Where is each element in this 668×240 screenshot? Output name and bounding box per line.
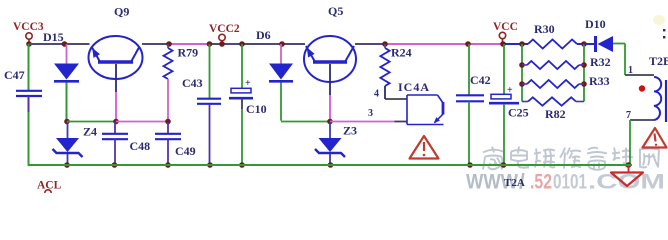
wire C42 top lead bbox=[468, 44, 470, 95]
node R79 top bbox=[166, 41, 172, 47]
wire top rail D6 to Q5 bbox=[282, 43, 305, 45]
wire C25 bottom lead bbox=[503, 104, 505, 164]
colon mark bbox=[663, 29, 665, 31]
warning symbol 2 bbox=[643, 128, 667, 148]
wire R79 stub bbox=[167, 44, 169, 48]
svg-text:R82: R82 bbox=[545, 107, 566, 121]
wire C49 bottom lead bbox=[167, 139, 169, 164]
svg-text:IC4A: IC4A bbox=[398, 80, 430, 94]
wire top rail D15 to Q9 bbox=[65, 43, 90, 45]
wire top rail VCC segment (pink) bbox=[468, 43, 503, 45]
node VCC2 bbox=[219, 41, 225, 47]
wire VCC3 down to C47 bbox=[28, 44, 30, 90]
wire D15 cathode to node (green) bbox=[66, 83, 68, 122]
wire D10 to T2B bbox=[613, 43, 625, 45]
wire Z3 top lead bbox=[329, 122, 331, 138]
wire mid to IC4A pin3 (pink) bbox=[330, 121, 395, 123]
svg-text:3: 3 bbox=[368, 108, 373, 119]
wire R24 to IC4A pin4 bbox=[385, 86, 407, 99]
yellow smudge bbox=[653, 15, 665, 25]
resistor R30 bbox=[528, 40, 577, 49]
resistor R79 bbox=[164, 48, 173, 79]
svg-text:C42: C42 bbox=[470, 73, 491, 87]
node VCC3 junction bbox=[26, 41, 32, 47]
svg-text:R24: R24 bbox=[391, 46, 412, 60]
node R block left mid1 bbox=[519, 62, 525, 68]
svg-text:C10: C10 bbox=[246, 102, 267, 116]
wire Q9 base bbox=[115, 64, 117, 122]
wire C10 bottom lead bbox=[241, 99, 243, 164]
node Z4 bottom bbox=[64, 162, 70, 168]
wire node to Z4 bbox=[67, 122, 69, 139]
svg-text:T2A: T2A bbox=[504, 177, 525, 189]
node C10 top bbox=[239, 41, 245, 47]
wire T2B pin1 lead bbox=[625, 44, 654, 76]
diode D6 bbox=[269, 64, 293, 82]
wire top rail Q5 to R24 bbox=[355, 43, 385, 45]
optocoupler IC4A bbox=[407, 95, 444, 125]
zener Z3 bbox=[315, 138, 345, 157]
wire D6 anode (pink) bbox=[280, 44, 282, 64]
svg-text:1: 1 bbox=[628, 65, 633, 76]
svg-text:C25: C25 bbox=[508, 106, 529, 120]
wire Z3 to bottom rail bbox=[329, 154, 331, 164]
wire Z4 to bottom rail bbox=[67, 154, 69, 164]
node R block right mid1 bbox=[581, 62, 587, 68]
node C49 bottom bbox=[165, 162, 171, 168]
node T2B ground junction bbox=[626, 162, 632, 168]
ground symbol bbox=[611, 166, 643, 186]
wire top rail Q9 to R79 bbox=[142, 43, 169, 45]
capacitor C42 bbox=[456, 73, 491, 101]
svg-text:D10: D10 bbox=[585, 17, 606, 31]
svg-text:.52: .52 bbox=[530, 171, 552, 194]
svg-text:R79: R79 bbox=[178, 46, 199, 60]
node C10 bottom bbox=[239, 162, 245, 168]
transformer T2B core bbox=[665, 80, 667, 122]
node C42 top bbox=[465, 41, 471, 47]
node VCC bbox=[500, 41, 506, 47]
wire C42 bottom lead bbox=[468, 102, 470, 165]
wire R block left rail bbox=[521, 44, 523, 102]
node Q5 base junction bbox=[327, 119, 333, 125]
svg-text:Q5: Q5 bbox=[328, 4, 343, 18]
node R block left mid2 bbox=[519, 81, 525, 87]
diode D15 bbox=[54, 64, 79, 82]
wire D6 cathode down and right (green) bbox=[281, 83, 330, 122]
capacitor C25 (electrolytic) bbox=[489, 85, 529, 120]
node C48 bottom bbox=[112, 162, 118, 168]
terminal VCC2 bbox=[219, 34, 225, 43]
svg-text:T2B: T2B bbox=[649, 54, 668, 68]
node Q9 base junction bbox=[113, 119, 119, 125]
terminal VCC bbox=[499, 32, 505, 43]
node C43 bottom bbox=[207, 162, 213, 168]
resistor R33 row bbox=[522, 80, 584, 88]
node R79/C49 bbox=[165, 119, 171, 125]
resistor R32 row bbox=[522, 61, 584, 69]
svg-text:VCC: VCC bbox=[493, 21, 518, 33]
node Z3 bottom bbox=[328, 162, 334, 168]
capacitor C43 bbox=[197, 99, 221, 104]
wire R24 stub bbox=[384, 44, 386, 48]
wire R79 to C49 node (pink) bbox=[167, 79, 169, 122]
svg-text:R30: R30 bbox=[534, 22, 555, 36]
node R block top-right bbox=[581, 41, 587, 47]
wire top rail C10 to D6 bbox=[242, 43, 282, 45]
svg-text:.COM: .COM bbox=[588, 171, 665, 194]
svg-text:Z3: Z3 bbox=[343, 124, 357, 138]
wire C10 top lead bbox=[241, 44, 243, 88]
transformer T2B winding bbox=[654, 77, 661, 120]
wire T2B pin7 lead bbox=[630, 120, 654, 164]
resistor R24 bbox=[380, 48, 389, 86]
wire C43 top lead bbox=[209, 44, 211, 99]
node R24 top bbox=[382, 41, 388, 47]
wire top rail R30 to D10 bbox=[577, 43, 594, 45]
wire Q5 base bbox=[329, 64, 331, 122]
node D15/Z4 bbox=[64, 119, 70, 125]
wire IC4A pin3 lead bbox=[395, 121, 408, 123]
svg-text:4: 4 bbox=[374, 89, 379, 100]
svg-text:D15: D15 bbox=[43, 30, 64, 44]
wire D10 anode lead bbox=[584, 43, 594, 45]
wire top rail VCC to R30 block bbox=[503, 43, 528, 45]
wire bottom rail bbox=[28, 164, 633, 166]
terminal VCC3 bbox=[26, 33, 32, 43]
node D6 top bbox=[279, 41, 285, 47]
capacitor C48 bbox=[102, 134, 150, 153]
wire C49 top lead bbox=[167, 122, 169, 134]
resistor R82 bbox=[522, 97, 584, 105]
watermark chinese text bbox=[483, 147, 659, 170]
wire C48 bottom lead bbox=[114, 139, 116, 164]
svg-text:VCC2: VCC2 bbox=[209, 23, 240, 35]
capacitor C10 (electrolytic) bbox=[229, 78, 267, 116]
transistor Q5 bbox=[304, 36, 356, 82]
wire mid Z4-Q9base (green) bbox=[67, 121, 116, 123]
zener Z4 bbox=[53, 138, 83, 157]
capacitor C49 bbox=[155, 134, 196, 158]
wire C25 top lead bbox=[503, 44, 505, 94]
svg-text:C47: C47 bbox=[4, 68, 25, 82]
svg-text:R32: R32 bbox=[590, 55, 611, 69]
svg-text:+: + bbox=[245, 78, 251, 89]
svg-text:C43: C43 bbox=[182, 76, 203, 90]
warning symbol 1 bbox=[410, 136, 439, 159]
wire C48 top lead bbox=[114, 122, 116, 134]
wire C43 bottom lead bbox=[209, 104, 211, 164]
svg-text:Z4: Z4 bbox=[83, 125, 97, 139]
svg-text:Q9: Q9 bbox=[114, 5, 129, 19]
node D15 top bbox=[62, 41, 68, 47]
wire mid Q9base-C49 (pink) bbox=[116, 121, 168, 123]
watermark url bbox=[466, 171, 665, 194]
svg-text:0101: 0101 bbox=[553, 171, 587, 194]
transformer polarity dot bbox=[639, 85, 645, 91]
node R block top-left bbox=[519, 41, 525, 47]
svg-text:VCC3: VCC3 bbox=[13, 21, 44, 33]
wire top rail VCC3 to D15 bbox=[29, 43, 65, 45]
wire top rail R24 to VCC (pink) bbox=[385, 43, 468, 45]
terminal ACL bbox=[45, 190, 51, 193]
node C43 top bbox=[207, 41, 213, 47]
diode D10 bbox=[596, 36, 614, 52]
wire D15 anode (pink) bbox=[66, 44, 68, 64]
wire R block right rail bbox=[583, 44, 585, 102]
node C42 bottom bbox=[467, 162, 473, 168]
svg-text:R33: R33 bbox=[589, 74, 610, 88]
svg-text:D6: D6 bbox=[256, 28, 271, 42]
node R block right mid2 bbox=[581, 81, 587, 87]
capacitor C47 bbox=[4, 68, 42, 96]
svg-text:C48: C48 bbox=[130, 139, 151, 153]
wire C47 to bottom rail bbox=[28, 96, 30, 164]
transistor Q9 bbox=[89, 36, 143, 79]
node C25 bottom bbox=[501, 162, 507, 168]
wire top rail C43 to C10 bbox=[210, 43, 243, 45]
svg-text:C49: C49 bbox=[175, 144, 196, 158]
wire top rail R79 to C43 (pink) bbox=[169, 43, 210, 45]
